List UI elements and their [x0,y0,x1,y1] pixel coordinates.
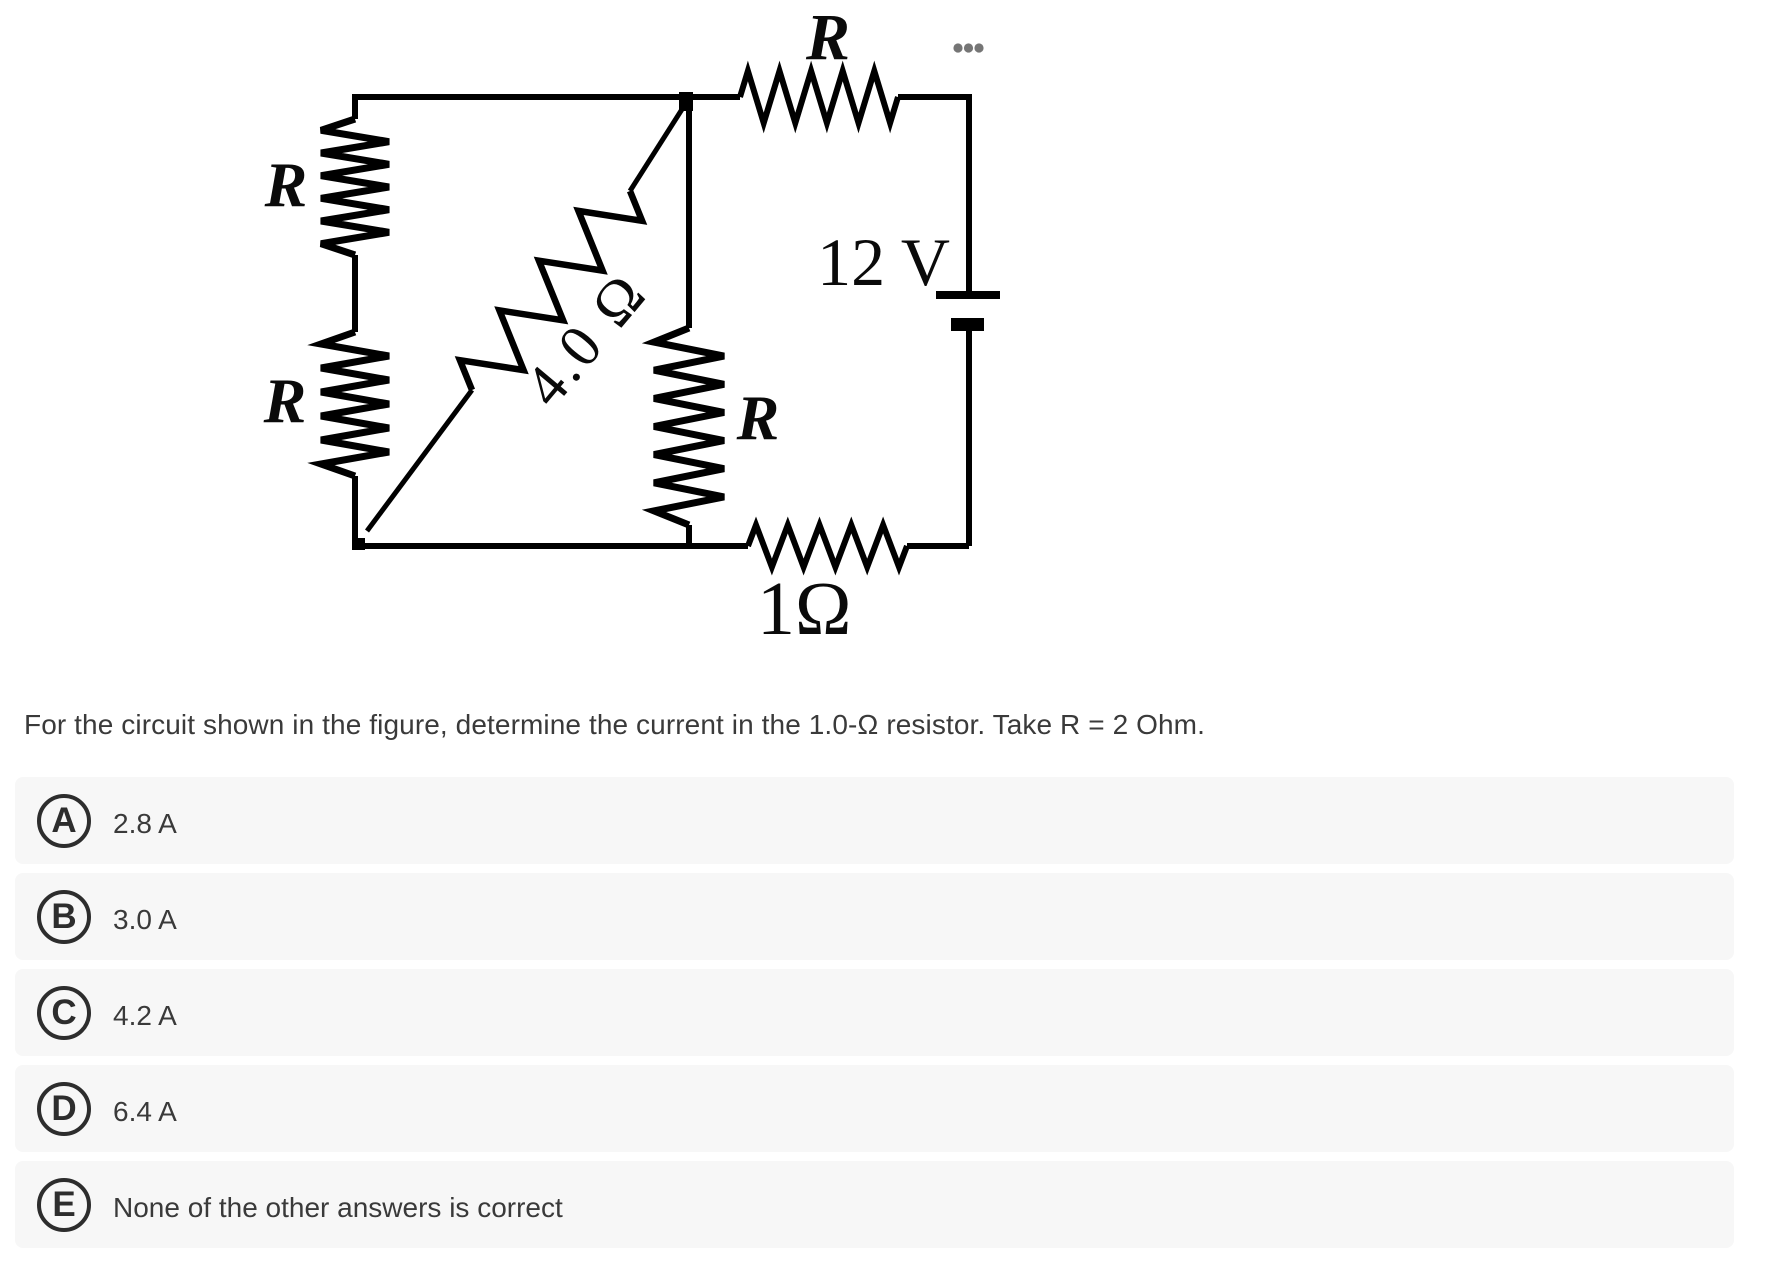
svg-text:4.0 Ω: 4.0 Ω [512,260,660,419]
resistor R (upper-left), ragged zigzag [321,119,389,255]
wire: top horizontal left segment (node A to top-left corner) [355,94,740,100]
wire: left vertical middle segment [352,255,358,332]
answer option D [15,1065,1734,1152]
wire: left vertical top stub [352,94,358,119]
wire: middle vertical upper segment (node A down) [686,97,692,328]
wire: bottom horizontal right segment [907,543,969,549]
battery 12V: short plate (-) [951,318,984,331]
resistor R (top), zigzag [740,71,898,123]
resistor R (middle), ragged zigzag [654,328,724,525]
wire: left vertical bottom segment [352,476,358,546]
resistor 4.0 ohm (diagonal): lower lead wire [367,390,472,531]
resistor 1 ohm (bottom), zigzag [748,525,907,567]
answer option C [15,969,1734,1056]
resistor R (lower-left), ragged zigzag [321,332,389,476]
answer option A [15,777,1734,864]
svg-text:1Ω: 1Ω [757,567,851,651]
svg-text:R: R [736,382,780,453]
answer option E [15,1161,1734,1248]
corner blob top-right [966,94,972,100]
node A junction dot [679,92,693,111]
svg-text:R: R [263,365,307,436]
wire: middle vertical bottom segment [686,525,692,546]
question text [24,709,1205,741]
bottom-left corner junction blob [352,538,365,550]
wire: right vertical lower segment [966,331,972,546]
wire: right vertical upper segment (to battery) [966,97,972,291]
svg-text:R: R [264,149,308,220]
answer option B [15,873,1734,960]
wire: bottom horizontal left segment [352,543,748,549]
battery 12V: long plate (+) [936,291,1000,299]
ellipsis dots (menu) [953,43,983,52]
resistor 4.0 ohm (diagonal): upper lead wire [630,103,686,191]
wire: top horizontal right segment [898,94,969,100]
svg-text:R: R [805,1,850,74]
resistor 4.0 ohm (diagonal): zigzag body [460,191,642,390]
circuit schematic figure [0,0,1100,690]
svg-text:12 V: 12 V [817,224,950,300]
